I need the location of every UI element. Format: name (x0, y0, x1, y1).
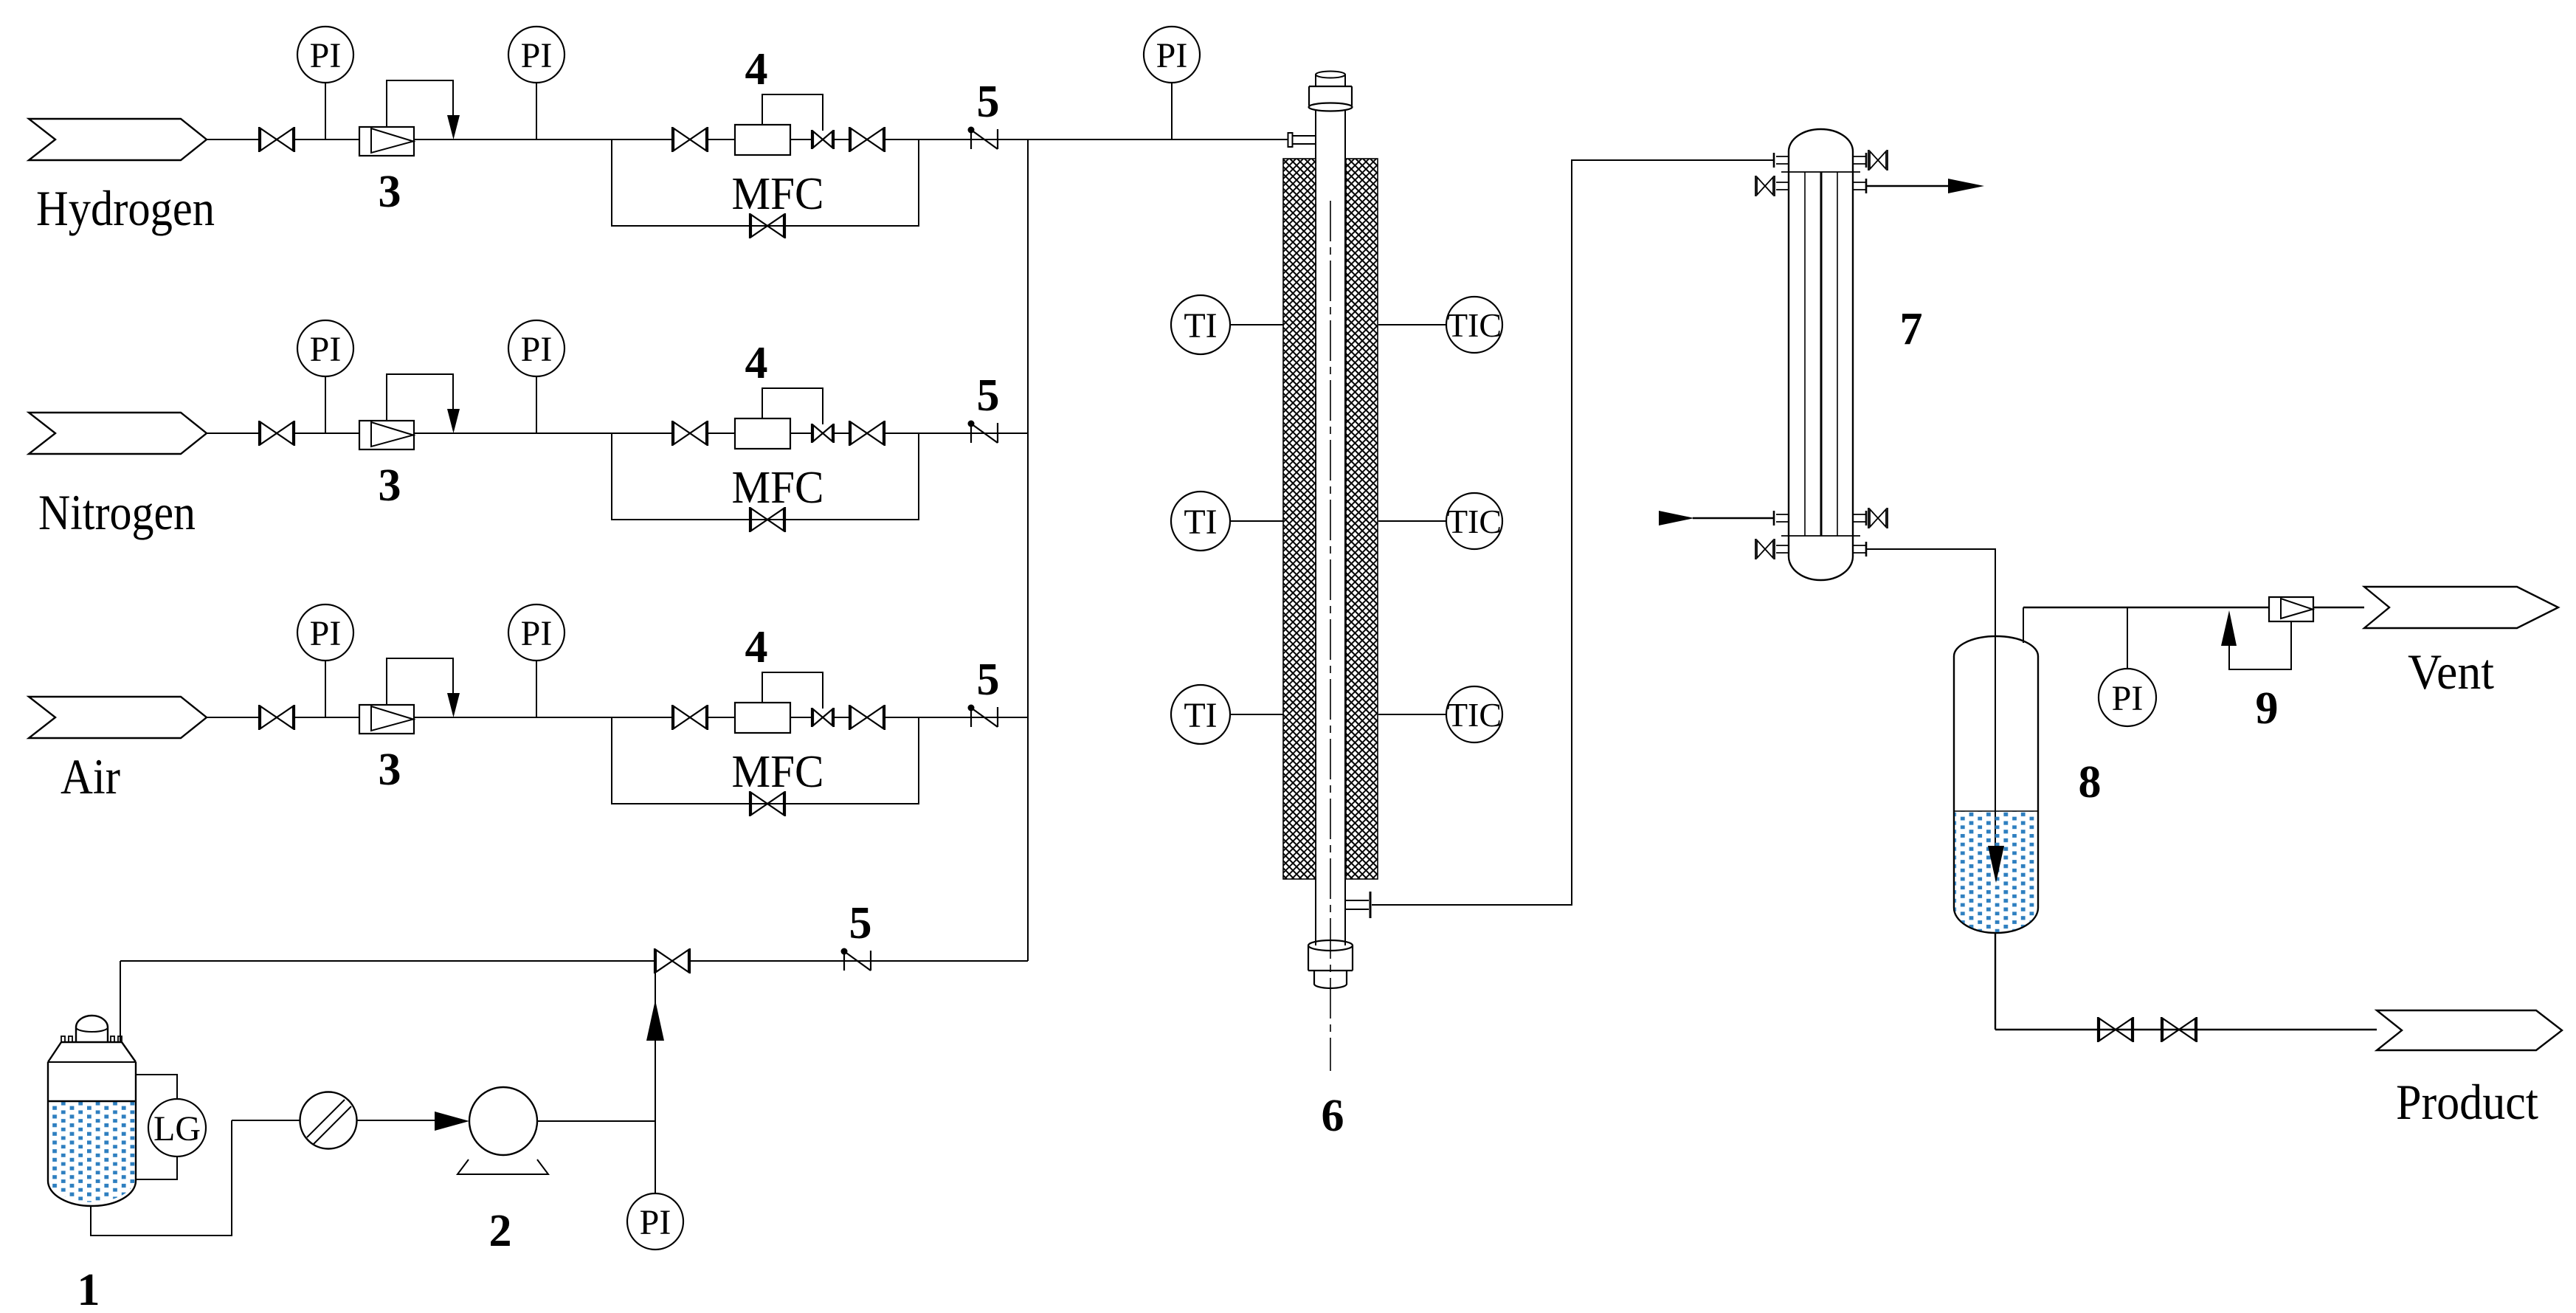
gauge PI (2099, 669, 2156, 726)
svg-text:PI: PI (521, 330, 553, 369)
bypass valve (750, 507, 785, 532)
MFC label (732, 463, 824, 513)
label 4 (745, 622, 768, 672)
inlet flag Nitrogen (29, 413, 207, 454)
gauge PI (1144, 27, 1200, 83)
MFC inlet valve (672, 421, 708, 446)
gauge PI (297, 604, 353, 661)
regulator feedback wire (387, 658, 453, 705)
wire (834, 717, 850, 718)
reactor R6 top cap (1316, 72, 1345, 87)
svg-text:Nitrogen: Nitrogen (38, 484, 196, 540)
block valve (259, 421, 294, 446)
pressure regulator 3 (359, 127, 414, 156)
label 3 (379, 745, 401, 795)
svg-text:6: 6 (1322, 1091, 1344, 1141)
pressure regulator 3 (359, 421, 414, 449)
condenser nozzle valve (1853, 508, 1888, 528)
reactor thermowell (1330, 201, 1331, 1071)
gauge TIC (1446, 493, 1502, 549)
MFC label (732, 169, 824, 219)
svg-text:Hydrogen: Hydrogen (36, 180, 215, 236)
condenser nozzle valve (1755, 539, 1789, 559)
svg-text:5: 5 (849, 898, 872, 948)
wire filter to pump (357, 1120, 435, 1121)
regulator feedback wire (387, 80, 453, 127)
svg-text:PI: PI (521, 36, 553, 75)
MFC setpoint wire (762, 672, 823, 709)
svg-text:2: 2 (489, 1206, 512, 1256)
regulator feedback arrow (447, 693, 460, 717)
gauge PI (508, 27, 564, 83)
wire inlet (207, 717, 260, 718)
separator S8 shell (1954, 636, 2038, 933)
tank T1 cap (76, 1016, 108, 1041)
label 7 (1900, 304, 1923, 354)
reactor heater jacket right (1346, 159, 1378, 879)
svg-text:MFC: MFC (732, 169, 824, 219)
regulator feedback arrow (447, 409, 460, 433)
wire to MFC valve (612, 139, 673, 140)
label 5 (977, 655, 1000, 705)
wire (790, 717, 812, 718)
svg-text:Vent: Vent (2408, 644, 2494, 700)
gauge PI stem (325, 82, 326, 139)
wire (707, 717, 735, 718)
wire separator vent (2023, 607, 2024, 643)
MFC control valve (812, 708, 834, 727)
tank T1 shell (48, 1062, 136, 1181)
Hydrogen label (36, 180, 215, 236)
regulator feedback wire (387, 374, 453, 421)
label 8 (2079, 757, 2102, 807)
condenser outlet nozzle (1853, 542, 1866, 556)
level gauge wires (136, 1075, 177, 1179)
outlet flag Product (2377, 1010, 2562, 1050)
svg-text:8: 8 (2079, 757, 2102, 807)
check valve 5 (968, 127, 998, 150)
svg-text:1: 1 (77, 1265, 100, 1313)
cooling water inlet (1693, 511, 1789, 525)
block valve (259, 705, 294, 730)
gauge TIC stem (1378, 324, 1446, 325)
regulator 9 sensing arrow (2221, 610, 2237, 646)
label 6 (1322, 1091, 1344, 1141)
cooling water in arrow (1659, 511, 1694, 525)
condenser inlet nozzle (1774, 153, 1789, 168)
wire discharge riser (655, 961, 656, 1193)
reactor R6 tube (1316, 111, 1345, 945)
reactor R6 bottom fitting (1308, 940, 1353, 988)
product valve (2098, 1017, 2133, 1042)
gauge TI (1171, 492, 1230, 551)
svg-text:Product: Product (2396, 1074, 2538, 1130)
wire condenser to separator (1867, 549, 1995, 846)
wire tank outlet (91, 1120, 232, 1236)
svg-text:LG: LG (153, 1109, 201, 1148)
svg-text:3: 3 (379, 745, 401, 795)
reactor R6 top fitting (1309, 86, 1353, 111)
label 3 (379, 461, 401, 511)
gauge PI stem (1171, 83, 1173, 139)
label 3 (379, 167, 401, 217)
svg-text:7: 7 (1900, 304, 1923, 354)
svg-text:TI: TI (1184, 696, 1217, 735)
wire vent line (2023, 607, 2269, 608)
svg-text:TIC: TIC (1447, 503, 1502, 540)
gauge PI stem (536, 82, 537, 139)
gauge PI stem (536, 660, 537, 717)
svg-text:PI: PI (2112, 679, 2144, 718)
reactor outlet nozzle (1346, 892, 1370, 918)
gauge TI stem (1230, 520, 1283, 522)
wire separator bottom outlet (1995, 933, 1996, 1030)
MFC setpoint wire (762, 388, 823, 424)
filter F1 (300, 1092, 357, 1149)
pressure regulator 3 (359, 705, 414, 734)
MFC label (732, 747, 824, 797)
svg-text:PI: PI (310, 330, 342, 369)
wire (834, 139, 850, 140)
riser flow arrow (646, 1000, 664, 1041)
svg-text:3: 3 (379, 167, 401, 217)
feed line valve (655, 948, 690, 973)
wire pump discharge (537, 1120, 655, 1122)
condenser vent nozzle valve (1853, 150, 1888, 170)
wire (294, 139, 359, 140)
gauge PI (297, 27, 353, 83)
Nitrogen label (38, 484, 196, 540)
svg-text:TI: TI (1184, 503, 1217, 542)
level gauge LG (148, 1099, 206, 1157)
gauge TI stem (1230, 324, 1283, 325)
svg-text:MFC: MFC (732, 747, 824, 797)
wire suction (232, 1120, 300, 1121)
gauge PI (508, 320, 564, 376)
wire (790, 433, 812, 434)
separator liquid (1955, 811, 2037, 932)
wire product line (1995, 1029, 2377, 1030)
wire to MFC valve (612, 433, 673, 434)
Product label (2396, 1074, 2538, 1130)
wire (884, 717, 1028, 718)
svg-text:PI: PI (310, 614, 342, 653)
MFC 4 body (735, 703, 790, 733)
svg-text:TIC: TIC (1447, 696, 1502, 734)
label 5 (977, 77, 1000, 127)
tank T1 bottom head (48, 1181, 136, 1206)
svg-text:PI: PI (1156, 36, 1188, 75)
gauge PI (508, 604, 564, 661)
gauge TIC stem (1378, 714, 1446, 715)
svg-text:PI: PI (310, 36, 342, 75)
bypass wire (612, 717, 919, 804)
regulator feedback arrow (447, 115, 460, 139)
wire (707, 433, 735, 434)
wire (294, 717, 359, 718)
check valve 5 (968, 705, 998, 728)
flow arrow (435, 1112, 469, 1131)
MFC inlet valve (672, 127, 708, 152)
pump P2 (469, 1087, 537, 1155)
svg-text:PI: PI (640, 1203, 671, 1242)
gauge TI (1171, 295, 1230, 354)
svg-text:Air: Air (61, 748, 120, 804)
gauge TIC (1446, 297, 1502, 353)
check valve 5 (968, 421, 998, 444)
MFC inlet valve (672, 705, 708, 730)
inlet flag Air (29, 697, 207, 738)
Vent label (2408, 644, 2494, 700)
wire to MFC valve (612, 717, 673, 718)
MFC outlet valve (849, 421, 885, 446)
wire (707, 139, 735, 140)
inlet flag Hydrogen (29, 119, 207, 160)
pump P2 base (457, 1159, 548, 1174)
wire manifold bus (1027, 139, 1029, 961)
MFC control valve (812, 130, 834, 149)
gauge TI stem (1230, 714, 1283, 715)
gauge PI (627, 1193, 683, 1250)
label 2 (489, 1206, 512, 1256)
MFC 4 body (735, 125, 790, 155)
svg-text:TI: TI (1184, 306, 1217, 345)
gauge TIC (1446, 686, 1502, 742)
product valve (2161, 1017, 2197, 1042)
condenser tubes (1805, 172, 1837, 536)
MFC control valve (812, 424, 834, 443)
label 5 (977, 371, 1000, 421)
check valve 5 (841, 948, 871, 971)
wire (834, 433, 850, 434)
MFC outlet valve (849, 127, 885, 152)
label 1 (77, 1265, 100, 1313)
reactor heater jacket left (1283, 159, 1316, 879)
bypass valve (750, 791, 785, 816)
condenser tube sheets (1781, 172, 1860, 536)
cooling water outlet (1853, 179, 1948, 193)
wire (414, 433, 612, 434)
Air label (61, 748, 120, 804)
wire tank riser (120, 961, 121, 1042)
outlet flag Vent (2364, 587, 2558, 628)
MFC setpoint wire (762, 94, 823, 131)
label 5 (849, 898, 872, 948)
wire (294, 433, 359, 434)
cooling water out arrow (1948, 179, 1984, 193)
gauge TI (1171, 685, 1230, 744)
wire liquid feed line (120, 960, 655, 962)
svg-text:4: 4 (745, 622, 768, 672)
gauge PI stem (325, 376, 326, 433)
wire to vent flag (2313, 607, 2364, 608)
wire inlet (207, 139, 260, 140)
regulator 9 sensing wire (2229, 621, 2291, 669)
svg-text:9: 9 (2256, 683, 2279, 734)
wire (414, 717, 612, 718)
separator dip tube arrow (1988, 846, 2004, 883)
label 9 (2256, 683, 2279, 734)
wire (884, 139, 1028, 140)
wire reactor outlet (1372, 160, 1773, 905)
bypass valve (750, 213, 785, 238)
svg-text:PI: PI (521, 614, 553, 653)
tank T1 bolt marks (61, 1036, 122, 1042)
svg-text:TIC: TIC (1447, 306, 1502, 344)
svg-text:5: 5 (977, 655, 1000, 705)
svg-text:5: 5 (977, 371, 1000, 421)
gauge PI (297, 320, 353, 376)
back-pressure regulator 9 (2269, 597, 2313, 621)
wire liquid feed to bus (689, 960, 1028, 962)
svg-text:MFC: MFC (732, 463, 824, 513)
MFC outlet valve (849, 705, 885, 730)
label 4 (745, 338, 768, 388)
gauge PI stem (2127, 607, 2128, 669)
wire inlet (207, 433, 260, 434)
wire (790, 139, 812, 140)
wire (414, 139, 612, 140)
condenser nozzle valve (1755, 176, 1789, 196)
wire (884, 433, 1028, 434)
label 4 (745, 44, 768, 94)
MFC 4 body (735, 418, 790, 449)
gauge TIC stem (1378, 520, 1446, 522)
svg-text:4: 4 (745, 338, 768, 388)
condenser E7 shell (1789, 129, 1853, 580)
gauge PI stem (325, 660, 326, 717)
tank T1 liquid (49, 1101, 135, 1202)
svg-text:4: 4 (745, 44, 768, 94)
svg-text:3: 3 (379, 461, 401, 511)
tank T1 shoulder (48, 1042, 136, 1062)
block valve (259, 127, 294, 152)
bypass wire (612, 139, 919, 226)
gauge PI stem (536, 376, 537, 433)
bypass wire (612, 433, 919, 520)
svg-text:5: 5 (977, 77, 1000, 127)
wire feed header to reactor (1028, 139, 1288, 140)
reactor inlet nozzle (1288, 133, 1316, 147)
